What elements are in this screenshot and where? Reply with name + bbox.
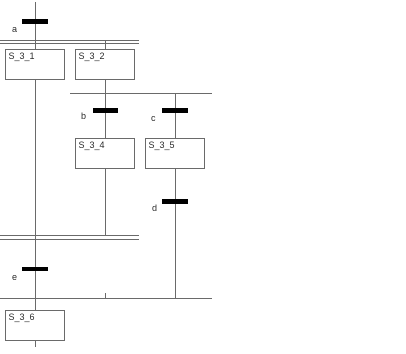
label S_3_4 bbox=[79, 141, 105, 150]
label a bbox=[12, 25, 17, 34]
label S_3_1 bbox=[9, 52, 35, 61]
step S_3_1 bbox=[5, 49, 65, 80]
transition b (bar) bbox=[93, 108, 118, 113]
parallel fork double line (upper line) bbox=[0, 40, 139, 41]
wire: stub tick above selection convergence bbox=[105, 293, 106, 298]
parallel join double line (lower line) bbox=[0, 239, 139, 240]
label S_3_2 bbox=[79, 52, 105, 61]
selection divergence line bbox=[70, 93, 212, 94]
parallel fork double line (lower line) bbox=[0, 43, 139, 44]
label S_3_5 bbox=[149, 141, 175, 150]
parallel join double line (upper line) bbox=[0, 235, 139, 236]
wire: main branch from S_3_1 down through join to step S_3_6 bbox=[35, 80, 36, 310]
wire: stub from fork down to step S_3_2 bbox=[105, 40, 106, 49]
step S_3_6 bbox=[5, 310, 65, 341]
wire: stub from S_3_2 down to selection divergence bbox=[105, 80, 106, 94]
step S_3_4 bbox=[75, 138, 135, 169]
wire: initial vertical line into transition a bbox=[35, 2, 36, 49]
label e bbox=[12, 273, 17, 282]
transition c (bar) bbox=[162, 108, 188, 113]
label c bbox=[151, 114, 156, 123]
transition a (bar) bbox=[22, 19, 48, 24]
step S_3_5 bbox=[145, 138, 205, 169]
wire: branch b down to step S_3_4 bbox=[105, 93, 106, 138]
transition d (bar) bbox=[162, 199, 188, 204]
selection convergence line bbox=[0, 298, 212, 299]
transition e (bar) bbox=[22, 267, 48, 272]
wire: tail below step S_3_6 bbox=[35, 341, 36, 347]
wire: branch b from S_3_4 down to parallel join bbox=[105, 169, 106, 236]
label S_3_6 bbox=[9, 313, 35, 322]
label b bbox=[81, 112, 86, 121]
wire: branch c from S_3_5 down through transition d to selection convergence bbox=[175, 169, 176, 298]
step S_3_2 bbox=[75, 49, 135, 80]
wire: branch c down to step S_3_5 bbox=[175, 93, 176, 138]
label d bbox=[152, 204, 157, 213]
